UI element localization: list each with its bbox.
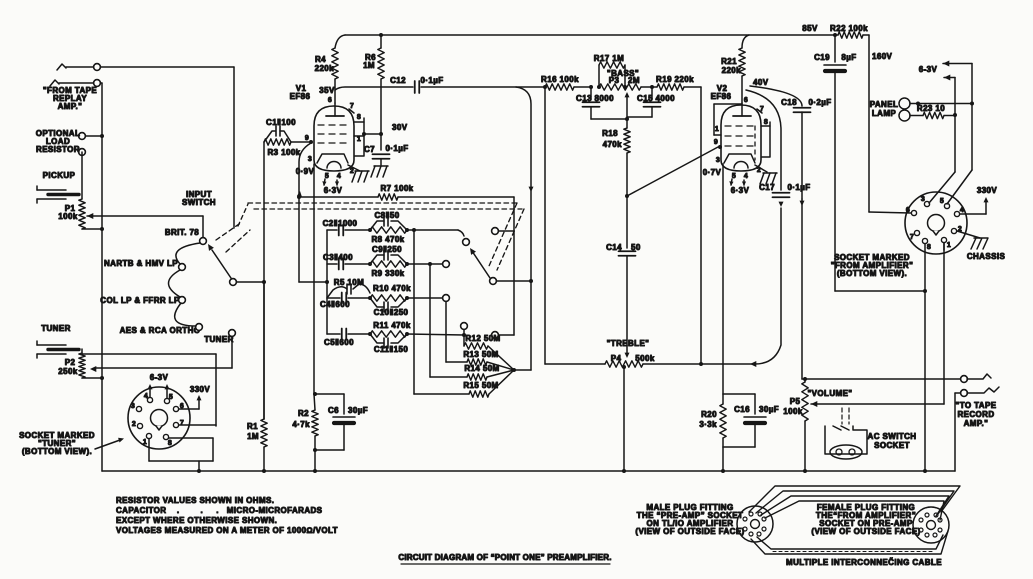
svg-text:3: 3 xyxy=(131,403,135,410)
svg-text:8: 8 xyxy=(357,114,361,121)
svg-text:TUNER: TUNER xyxy=(204,335,234,344)
rail row3 contact to R13 xyxy=(446,301,467,362)
V2 heater pins 5,4 with 6.3V arrows xyxy=(729,173,749,195)
pickup cartridge symbol xyxy=(37,152,82,203)
svg-text:7: 7 xyxy=(180,420,184,427)
capacitor C3 400 xyxy=(323,253,372,270)
resistor R12 50M xyxy=(464,334,514,370)
svg-text:160V: 160V xyxy=(872,52,893,61)
svg-text:R4: R4 xyxy=(315,55,326,64)
title xyxy=(398,553,611,564)
V1 pin 9 (grid) xyxy=(305,135,309,142)
V2 pin 7 xyxy=(757,106,764,113)
svg-text:C18: C18 xyxy=(781,98,797,107)
V2 cathode wire down to R20 xyxy=(722,164,724,394)
svg-text:6-3V: 6-3V xyxy=(150,373,169,382)
V1 pin 8 and screen strap xyxy=(354,114,366,156)
capacitor C18 0.2uF xyxy=(781,98,831,379)
svg-text:C12: C12 xyxy=(390,76,406,85)
V2 anode pin 6 xyxy=(733,97,751,116)
feedback line from bass network to V2 grid pin 9 xyxy=(625,147,718,198)
svg-text:1M: 1M xyxy=(363,61,375,70)
svg-text:NARTB & HMV LP: NARTB & HMV LP xyxy=(104,259,178,268)
parallel C8 50 / R8 470k xyxy=(370,211,409,244)
V2 pin 2 to ground xyxy=(755,165,777,184)
label V1 EF86 xyxy=(290,84,311,101)
svg-text:(VIEW OF OUTSIDE FACE): (VIEW OF OUTSIDE FACE) xyxy=(811,527,920,536)
svg-text:R19 220k: R19 220k xyxy=(656,75,694,84)
V1 pin 3 (cathode) label and 0.9V xyxy=(296,156,315,176)
optional load resistor terminals xyxy=(79,133,104,156)
svg-text:R15 50M: R15 50M xyxy=(463,381,498,390)
wire R4 to V1 anode and C12 branch xyxy=(335,79,413,103)
svg-text:50: 50 xyxy=(631,243,641,252)
svg-text:R16 100k: R16 100k xyxy=(541,75,579,84)
svg-text:1M: 1M xyxy=(247,432,259,441)
svg-text:(VIEW OF OUTSIDE FACE): (VIEW OF OUTSIDE FACE) xyxy=(635,527,744,536)
socket marked FROM AMPLIFIER (bottom view) xyxy=(905,192,967,254)
resistor R4 220k xyxy=(315,48,339,79)
wire cathode network to ground bus xyxy=(721,447,725,473)
svg-text:3: 3 xyxy=(921,196,925,203)
svg-text:R3 100k: R3 100k xyxy=(267,148,300,157)
svg-text:3: 3 xyxy=(716,157,720,164)
svg-text:C4‖600: C4‖600 xyxy=(320,300,350,309)
P5 wiper from output socket pin 1 xyxy=(811,243,944,407)
svg-text:C16: C16 xyxy=(734,405,750,414)
label MALE PLUG FITTING xyxy=(635,503,744,536)
anode curve to C18 (volume feed) xyxy=(750,86,802,106)
svg-text:2: 2 xyxy=(132,421,136,428)
V1 screen wire to 30V node xyxy=(364,132,383,136)
svg-text:TUNER: TUNER xyxy=(41,324,71,333)
capacitor C17 0.1uF xyxy=(759,183,810,207)
wire R7 to switch contacts riser xyxy=(398,197,514,338)
parallel R5 10M / C4 600 xyxy=(320,278,372,309)
label SOCKET MARKED FROM AMPLIFIER xyxy=(831,253,914,278)
svg-text:4: 4 xyxy=(960,207,964,214)
svg-text:SOCKET: SOCKET xyxy=(874,441,910,450)
ground under C7 xyxy=(371,159,388,177)
svg-text:AES & RCA ORTHO: AES & RCA ORTHO xyxy=(120,326,201,335)
svg-text:R5 10M: R5 10M xyxy=(334,278,364,287)
V1 cathode wire down to R2 xyxy=(313,164,315,394)
V1 pin 2 to ground xyxy=(348,165,369,182)
network right rail row1 to R15 xyxy=(414,230,469,394)
capacitor C1 100 xyxy=(264,118,296,142)
160V wire into socket pin 6 xyxy=(869,212,911,213)
capacitor C2 1000 xyxy=(323,219,372,236)
svg-text:0·7V: 0·7V xyxy=(703,168,722,177)
svg-text:R7 100k: R7 100k xyxy=(380,184,413,193)
label FROM TAPE REPLAY AMP xyxy=(43,86,98,111)
socket marked TUNER (bottom view) xyxy=(128,387,190,449)
svg-text:8: 8 xyxy=(764,119,768,126)
input terminal from tape replay amp (lower line) xyxy=(50,80,102,471)
male plug (pre-amp socket view) xyxy=(737,506,773,542)
svg-text:(BOTTOM VIEW).: (BOTTOM VIEW). xyxy=(22,447,92,456)
label INPUT SWITCH xyxy=(182,190,216,207)
wire C1/R3 left node down to R1 xyxy=(263,142,265,419)
svg-text:MULTIPLE INTERCONNEC̃ING CABLE: MULTIPLE INTERCONNEC̃ING CABLE xyxy=(786,558,942,567)
row1 wire to switch contact xyxy=(407,228,469,245)
switch contact NARTB & HMV LP xyxy=(104,259,185,270)
svg-text:8µF: 8µF xyxy=(841,53,856,62)
potentiometer P5 VOLUME 100k xyxy=(783,377,852,473)
svg-text:1: 1 xyxy=(357,136,361,143)
svg-text:EF86: EF86 xyxy=(290,92,311,101)
switch arm pivot wire to R1 node xyxy=(230,279,266,286)
svg-text:P3: P3 xyxy=(609,76,620,85)
svg-text:R21: R21 xyxy=(721,57,737,66)
svg-text:"TO TAPE: "TO TAPE xyxy=(956,401,997,410)
parallel R11 470k / C11 150 xyxy=(370,321,411,354)
AC switch socket box xyxy=(825,426,867,459)
svg-text:C10‖250: C10‖250 xyxy=(374,308,409,317)
V1 anode (pin 6) xyxy=(326,97,344,116)
svg-text:RECORD: RECORD xyxy=(957,410,994,419)
svg-text:6: 6 xyxy=(328,97,332,104)
svg-text:4: 4 xyxy=(337,173,341,180)
svg-text:6-3V: 6-3V xyxy=(919,65,938,74)
svg-text:250k: 250k xyxy=(58,367,78,376)
svg-text:R17 1M: R17 1M xyxy=(594,54,624,63)
resistor R15 50M xyxy=(463,370,514,397)
svg-text:220k: 220k xyxy=(315,64,335,73)
svg-text:0·2µF: 0·2µF xyxy=(808,98,831,107)
svg-text:R1: R1 xyxy=(247,422,258,431)
svg-text:5: 5 xyxy=(169,394,173,401)
dashed link volume to AC switch xyxy=(842,408,849,424)
svg-text:R10 470k: R10 470k xyxy=(373,284,411,293)
wire R3/C1 to V1 grid pin 9 xyxy=(291,140,313,144)
P2 top wire to tuner socket pin 7 xyxy=(82,354,216,426)
svg-text:4: 4 xyxy=(144,393,148,400)
svg-text:"TREBLE": "TREBLE" xyxy=(607,339,650,348)
svg-text:P5: P5 xyxy=(790,397,801,406)
notes text xyxy=(116,496,338,535)
wire C12 to R16 node xyxy=(421,85,547,89)
output line P5 top to tape record terminal xyxy=(805,378,960,380)
capacitor C13 8000 xyxy=(576,87,627,119)
svg-text:BRIT. 78: BRIT. 78 xyxy=(165,228,199,237)
svg-text:(BOTTOM VIEW).: (BOTTOM VIEW). xyxy=(837,269,907,278)
svg-text:2M: 2M xyxy=(628,76,640,85)
wire R22 to 160V rail xyxy=(863,35,869,212)
resistor R14 50M xyxy=(464,364,514,380)
socket pin 8 wire down to ground bus xyxy=(923,244,927,473)
wire R6 down to screen node 30V xyxy=(380,79,382,134)
switch contact BRIT. 78 xyxy=(165,228,207,244)
svg-text:100k: 100k xyxy=(58,212,78,221)
HT rail (top bus) xyxy=(335,35,838,48)
svg-text:VOLTAGES MEASURED ON A METER O: VOLTAGES MEASURED ON A METER OF 1000Ω/VO… xyxy=(116,526,338,535)
svg-text:C19: C19 xyxy=(814,53,830,62)
tuner socket pin 6 wire to 330V xyxy=(179,395,202,409)
svg-text:8: 8 xyxy=(168,440,172,447)
V2 pin 3 cathode, 0.7V xyxy=(703,157,722,177)
P1 bottom wire to main ground riser xyxy=(82,227,104,231)
V2 pin 8 and screen strap xyxy=(761,119,770,157)
svg-text:6·3V: 6·3V xyxy=(731,186,750,195)
switch contact AES & RCA ORTHO xyxy=(120,324,203,335)
network left rail xyxy=(326,230,328,334)
V2 pin 1 strap to anode lead xyxy=(714,104,742,135)
resistor R19 220k xyxy=(641,75,703,366)
svg-text:CIRCUIT DIAGRAM OF “POINT ONE: CIRCUIT DIAGRAM OF “POINT ONE” PREAMPLIF… xyxy=(398,553,611,562)
resistor R20 3.3k xyxy=(699,394,755,447)
svg-text:9: 9 xyxy=(305,135,309,142)
potentiometer P4 TREBLE 500k xyxy=(605,339,655,473)
svg-text:C7: C7 xyxy=(364,145,375,154)
svg-text:0·9V: 0·9V xyxy=(296,167,315,176)
V1 pin 1 xyxy=(354,136,364,143)
svg-text:6: 6 xyxy=(744,97,748,104)
svg-text:220k: 220k xyxy=(722,66,742,75)
svg-text:R8 470k: R8 470k xyxy=(371,235,404,244)
capacitor C6 30uF xyxy=(315,394,368,450)
svg-text:RESISTOR VALUES SHOWN IN OHMS.: RESISTOR VALUES SHOWN IN OHMS. xyxy=(116,496,274,505)
pointer arrow to tuner socket xyxy=(95,438,124,449)
svg-text:R9 330k: R9 330k xyxy=(371,269,404,278)
switch contact TUNER xyxy=(204,330,235,344)
svg-text:0·1µF: 0·1µF xyxy=(385,144,408,153)
P1 wiper arm from input switch BRIT.78 contact xyxy=(87,213,203,237)
resistor R1 1M xyxy=(247,282,267,473)
svg-text:RESISTOR: RESISTOR xyxy=(36,145,80,154)
resistor R16 100k xyxy=(541,75,593,90)
capacitor C14 50 xyxy=(606,153,641,354)
svg-text:C1‖100: C1‖100 xyxy=(266,118,296,127)
resistor R17 1M bypass xyxy=(594,54,627,89)
female plug (from amplifier plug view) xyxy=(913,507,949,543)
svg-text:C17: C17 xyxy=(759,183,775,192)
svg-text:COL LP & FFRR LP: COL LP & FFRR LP xyxy=(100,296,180,305)
svg-text:C5‖600: C5‖600 xyxy=(324,338,354,347)
svg-text:330V: 330V xyxy=(977,186,998,195)
svg-text:C2‖1000: C2‖1000 xyxy=(323,219,358,228)
panel lamp xyxy=(870,98,972,121)
resistor R6 1M xyxy=(363,33,384,79)
label TO TAPE RECORD AMP xyxy=(956,401,997,428)
capacitor C7 0.1uF on screen xyxy=(364,134,409,159)
svg-text:1: 1 xyxy=(715,126,719,133)
V1 heater pins 5,4 with 6.3V arrows xyxy=(322,173,342,195)
V1 cathode structure xyxy=(317,154,348,168)
potentiometer P1 100k xyxy=(58,199,85,229)
tuner socket pin 8 wire to ground bus xyxy=(169,438,213,461)
svg-text:C11‖150: C11‖150 xyxy=(374,345,409,354)
svg-text:CAPACITOR . . .: CAPACITOR . . . MICRO-MICROFARADS xyxy=(116,506,323,515)
pentode V2 EF86 envelope xyxy=(721,105,761,171)
capacitor C15 4000 xyxy=(627,85,675,117)
parallel C9 250 / R9 330k xyxy=(370,245,409,278)
tuner socket heater pins 4,5 wires to 6.3V xyxy=(148,384,170,398)
svg-text:P2: P2 xyxy=(65,358,76,367)
wire R16 node down to P4 left xyxy=(545,87,605,364)
svg-text:EF86: EF86 xyxy=(711,92,732,101)
svg-text:0·1µF: 0·1µF xyxy=(420,76,443,85)
svg-text:4: 4 xyxy=(744,173,748,180)
svg-text:AMP.": AMP." xyxy=(964,419,989,428)
pentode V1 EF86 envelope xyxy=(314,106,354,171)
label MULTIPLE INTERCONNECTING CABLE xyxy=(786,558,942,567)
row3 wire to switch contact xyxy=(407,295,449,302)
svg-text:R11 470k: R11 470k xyxy=(373,321,411,330)
svg-text:C15 4000: C15 4000 xyxy=(637,94,675,103)
rail row2 to R14 xyxy=(430,264,467,377)
wire R7 node down to R5 row xyxy=(299,197,329,284)
capacitor C12 0.1uF coupling xyxy=(390,76,443,93)
svg-text:R13 50M: R13 50M xyxy=(463,350,498,359)
svg-text:9: 9 xyxy=(714,139,718,146)
switch arm (pole 2) with arrow xyxy=(470,248,533,284)
svg-text:EXCEPT WHERE OTHERWISE SHOWN.: EXCEPT WHERE OTHERWISE SHOWN. xyxy=(116,516,277,525)
row4 wire to switch contact xyxy=(407,323,467,337)
svg-text:3: 3 xyxy=(308,156,312,163)
svg-text:330V: 330V xyxy=(190,385,211,394)
wire R21 to V2 anode xyxy=(741,76,743,103)
svg-text:8: 8 xyxy=(927,244,931,251)
svg-text:470k: 470k xyxy=(603,140,623,149)
svg-text:3·3k: 3·3k xyxy=(699,420,717,429)
svg-text:C13 8000: C13 8000 xyxy=(576,94,614,103)
resistor R23 10 xyxy=(910,104,955,119)
svg-text:40V: 40V xyxy=(753,78,769,87)
capacitor C19 8uF xyxy=(814,35,927,293)
interconnecting cable conductors xyxy=(749,486,960,520)
resistor R3 100k xyxy=(264,139,301,157)
svg-text:0·1µF: 0·1µF xyxy=(787,183,810,192)
svg-text:1: 1 xyxy=(143,439,147,446)
tuner socket pin 7 wire (to P2 top riser) xyxy=(179,424,216,426)
svg-text:4·7k: 4·7k xyxy=(292,420,310,429)
anode curve to C17 (treble feed) xyxy=(746,90,781,190)
svg-text:PANEL: PANEL xyxy=(870,100,899,109)
svg-text:85V: 85V xyxy=(802,24,818,33)
svg-text:30µF: 30µF xyxy=(759,405,779,414)
svg-text:C9‖250: C9‖250 xyxy=(372,245,402,254)
svg-text:5: 5 xyxy=(940,198,944,205)
svg-text:2: 2 xyxy=(350,168,354,175)
resistor R7 100k grid feed xyxy=(299,184,414,200)
resistor R13 50M xyxy=(463,350,514,370)
svg-text:R18: R18 xyxy=(602,129,618,138)
heater diagonals into socket pins xyxy=(929,170,972,204)
heater supply line A with arrow xyxy=(943,61,974,171)
terminal TO TAPE RECORD AMP (top) xyxy=(961,374,991,382)
svg-text:7: 7 xyxy=(760,106,764,113)
svg-text:LAMP: LAMP xyxy=(872,109,897,118)
grid feed curve from pin 9 down to R7 node xyxy=(297,143,311,199)
svg-text:C6: C6 xyxy=(328,406,339,415)
wire P4 right to feedback node xyxy=(643,361,756,367)
potentiometer P3 BASS 2M xyxy=(599,69,641,121)
svg-text:1: 1 xyxy=(947,242,951,249)
svg-text:R22 100k: R22 100k xyxy=(830,24,868,33)
svg-text:30V: 30V xyxy=(392,123,408,132)
svg-text:AC SWITCH: AC SWITCH xyxy=(868,432,917,441)
svg-text:R23 10: R23 10 xyxy=(917,104,945,113)
svg-text:SWITCH: SWITCH xyxy=(182,198,216,207)
capacitor C16 30uF xyxy=(723,394,779,447)
svg-text:7: 7 xyxy=(910,234,914,241)
socket pin 4 wire to 330V arrow xyxy=(960,197,989,214)
label AC SWITCH SOCKET xyxy=(868,432,917,450)
svg-text:CHASSIS: CHASSIS xyxy=(967,252,1006,261)
tuner input connector symbol xyxy=(37,341,79,358)
svg-text:100k: 100k xyxy=(783,407,803,416)
resistor R21 220k xyxy=(721,35,749,76)
wire pivot rail down to fan node xyxy=(512,281,531,372)
V2 pin 9 grid xyxy=(714,139,722,149)
feedback curve from C17 to treble pot xyxy=(755,208,781,364)
svg-text:R14 50M: R14 50M xyxy=(464,364,499,373)
svg-text:C14: C14 xyxy=(606,243,622,252)
svg-text:"VOLUME": "VOLUME" xyxy=(807,389,852,398)
input terminal from tape replay amp (top line) xyxy=(57,64,234,228)
socket pin 2 wire to chassis xyxy=(957,231,988,249)
capacitor C5 600 xyxy=(324,329,372,348)
label V2 EF86 xyxy=(711,84,732,101)
svg-text:7: 7 xyxy=(350,103,354,110)
label FEMALE PLUG FITTING xyxy=(811,503,920,536)
switch sector arcs xyxy=(169,243,201,326)
P2 bottom wire to ground riser xyxy=(82,376,104,380)
svg-text:AMP.": AMP." xyxy=(58,102,83,111)
svg-text:30µF: 30µF xyxy=(348,406,368,415)
svg-text:PICKUP: PICKUP xyxy=(43,171,76,180)
switch arm (pole 1) with arrow xyxy=(208,244,233,281)
svg-text:C8‖50: C8‖50 xyxy=(374,211,399,220)
ganged switch linkage (dashed) xyxy=(216,203,524,270)
svg-text:R2: R2 xyxy=(298,409,309,418)
parallel R10 470k / C10 250 xyxy=(370,284,411,317)
resistor R22 100k xyxy=(830,24,868,38)
ground bus xyxy=(102,470,955,472)
resistor R2 4.7k xyxy=(292,392,318,473)
tuner contact wire to P2 wiper xyxy=(90,336,232,372)
heater supply line B with arrow xyxy=(944,75,957,173)
V2 grid dashes xyxy=(725,126,755,160)
label OPTIONAL LOAD RESISTOR xyxy=(36,129,81,154)
svg-text:35V: 35V xyxy=(319,86,335,95)
svg-text:R12 50M: R12 50M xyxy=(465,334,500,343)
terminal TO TAPE RECORD AMP (bottom) xyxy=(955,387,999,471)
row2 wire to switch contact xyxy=(407,261,449,268)
interconnecting cable sheath xyxy=(751,531,948,554)
label SOCKET MARKED TUNER xyxy=(19,431,95,456)
V1 pin 7 xyxy=(349,103,354,113)
V2 cathode structure xyxy=(724,154,755,168)
branch curve from C12 node down to switch pivot rail xyxy=(516,87,534,281)
potentiometer P2 250k xyxy=(58,349,85,378)
V1 grid dashes xyxy=(318,125,350,143)
svg-text:6·3V: 6·3V xyxy=(324,186,343,195)
svg-text:R20: R20 xyxy=(701,410,717,419)
switch contact COL LP & FFRR LP xyxy=(100,296,185,305)
socket pin 1 wire down to volume wiper line xyxy=(943,243,945,250)
tuner socket pin 1 wire to ground bus xyxy=(149,439,213,473)
resistor R18 470k xyxy=(602,119,630,153)
